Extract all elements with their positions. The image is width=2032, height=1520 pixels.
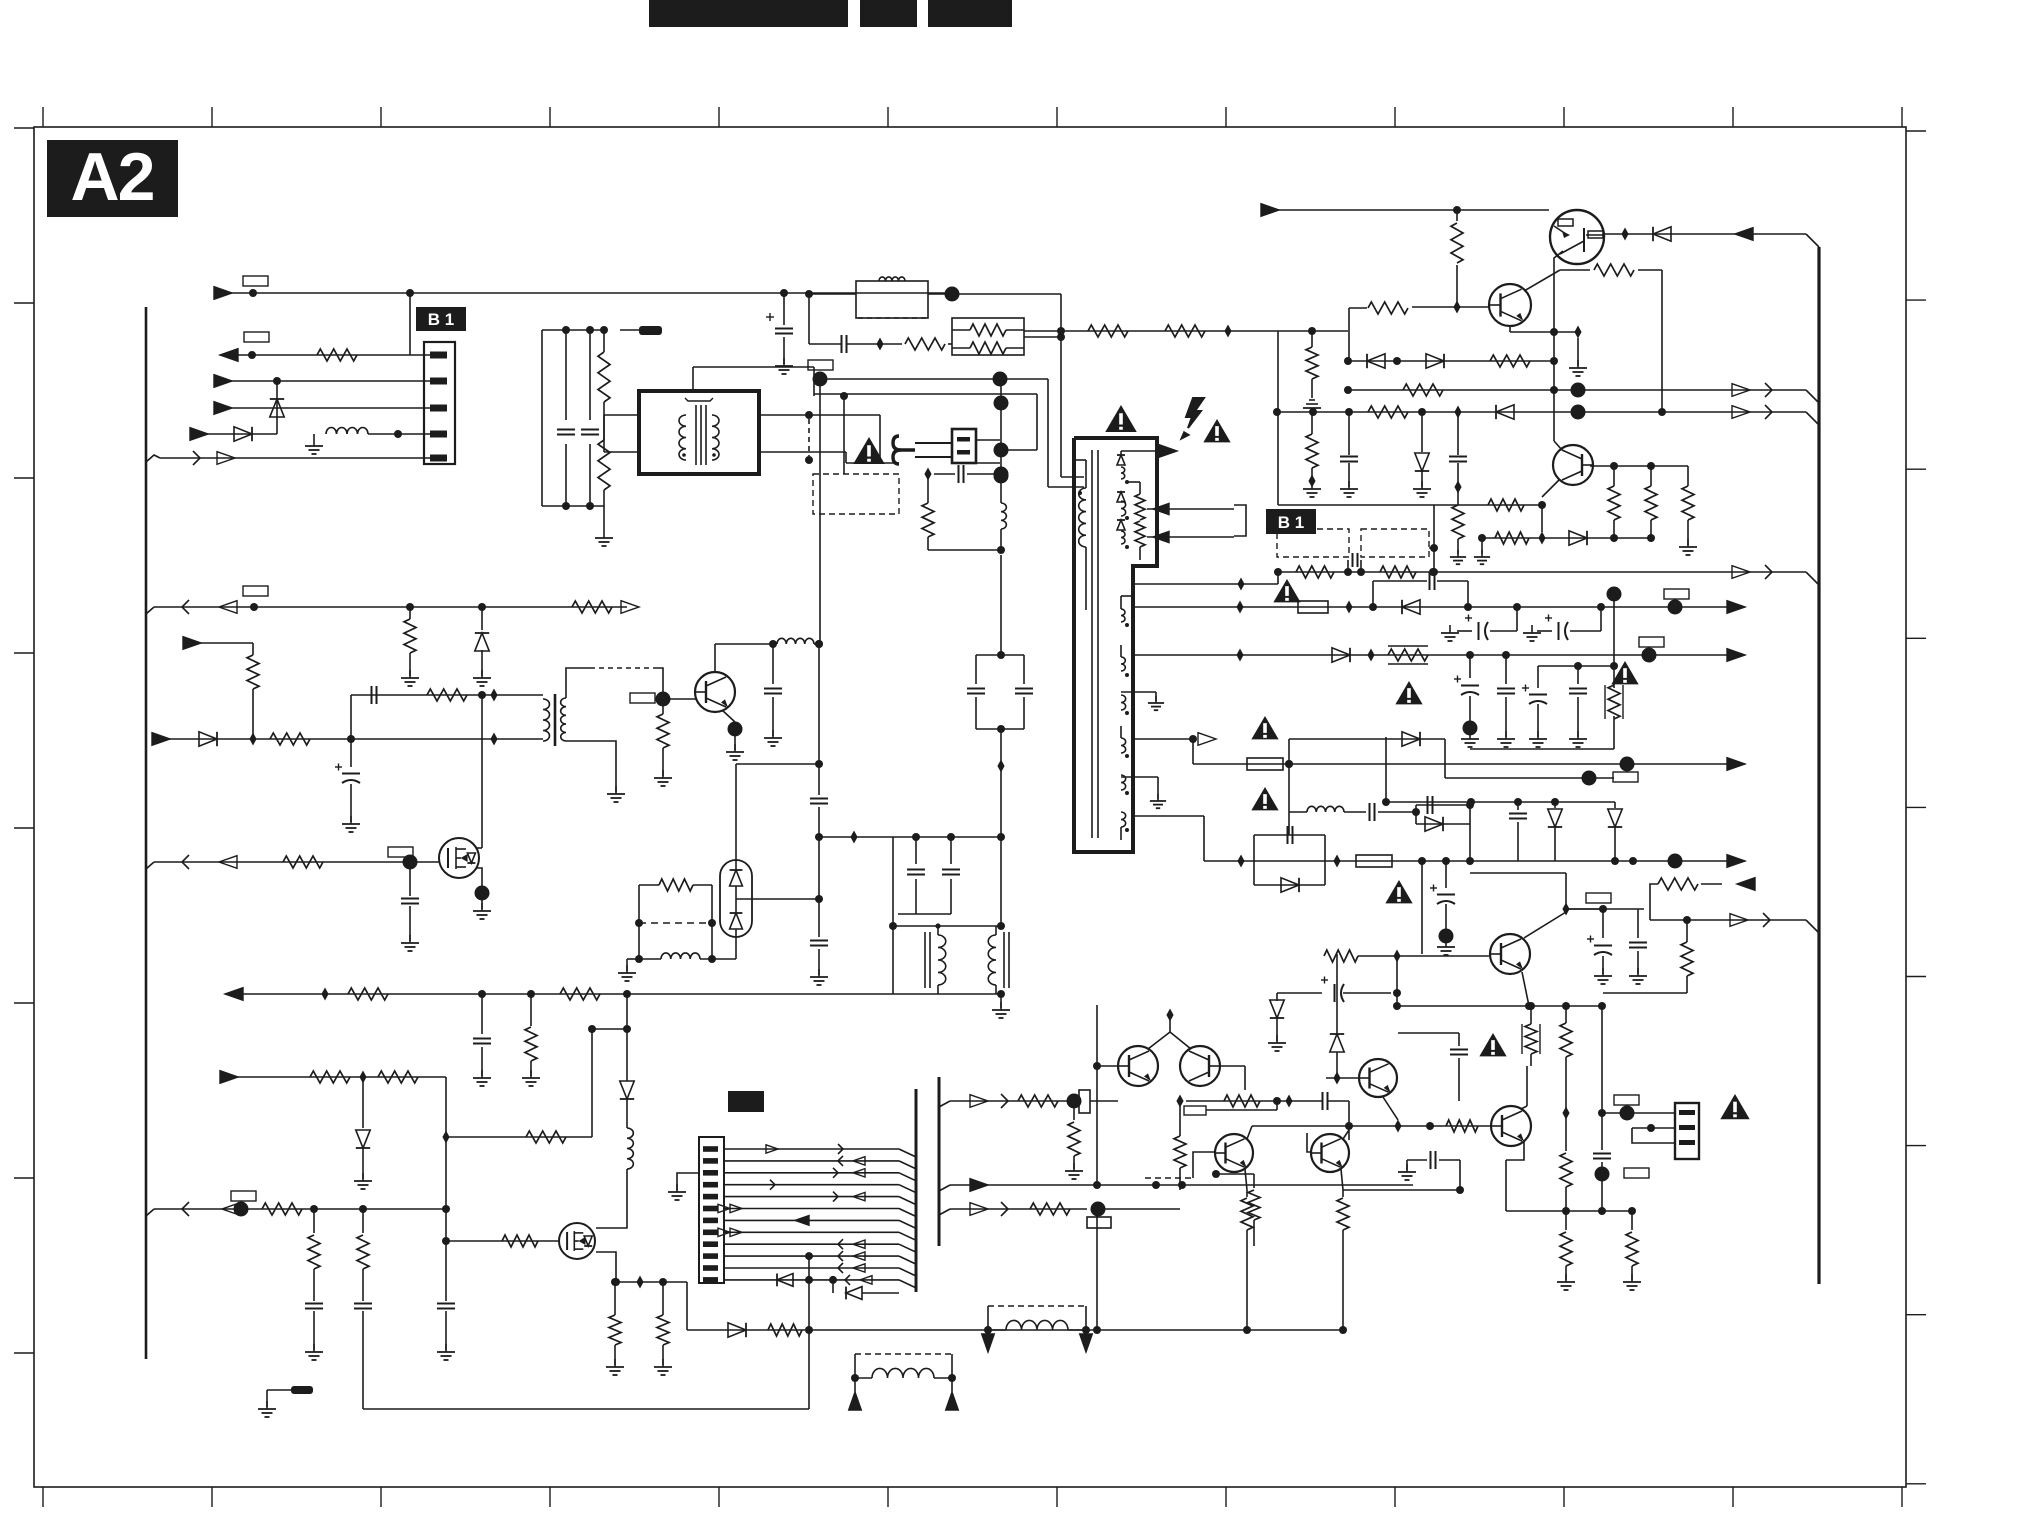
Q3 emitter bbox=[722, 710, 744, 760]
wire y1126 bbox=[1252, 1120, 1491, 1133]
gnd mid bbox=[992, 994, 1010, 1018]
right thick bus bbox=[1817, 247, 1820, 1284]
wire to L box bbox=[805, 290, 856, 298]
Q3 base res bbox=[654, 699, 672, 786]
res v1632 low bbox=[1623, 1211, 1641, 1290]
Q pair left bbox=[1118, 1046, 1158, 1086]
T601 sec w3 bbox=[1121, 531, 1129, 549]
core lines bbox=[696, 405, 706, 465]
chassis terminal bbox=[258, 1386, 313, 1417]
primary winding bbox=[679, 415, 686, 460]
T601 gnd a bbox=[1121, 692, 1164, 710]
warn tri caps bbox=[1395, 681, 1422, 704]
bus 819 from top bbox=[815, 379, 823, 648]
rail2 bbox=[1133, 600, 1745, 615]
res 664 bbox=[654, 1282, 672, 1375]
jumper 1 bbox=[849, 1354, 959, 1410]
T601 sec w4 bbox=[1121, 596, 1133, 627]
lightning bbox=[1181, 398, 1204, 439]
wire pin2 bbox=[214, 375, 430, 388]
base res bbox=[1349, 302, 1408, 363]
svg-text:A2: A2 bbox=[71, 139, 154, 215]
Q10 cap bbox=[1398, 1033, 1468, 1101]
transistor Q3 bbox=[695, 672, 735, 712]
T603 sec top bbox=[566, 668, 663, 699]
Q8 collector bbox=[1510, 325, 1587, 376]
warn tri 2 bbox=[1203, 419, 1230, 442]
terminal pill bbox=[600, 326, 662, 335]
v 1422 down bbox=[1421, 861, 1423, 954]
ladder bar left bbox=[915, 1089, 918, 1292]
main vert 1001 bbox=[997, 555, 1004, 926]
v531 low bbox=[522, 994, 540, 1086]
flyback tap arrow bbox=[1133, 733, 1216, 746]
wire y1282 bbox=[611, 1276, 687, 1331]
diac oval bbox=[720, 860, 752, 959]
warn rail1 bbox=[1273, 579, 1300, 602]
wire B2 y1209 bbox=[146, 1202, 450, 1217]
Q14 emit bbox=[1337, 1169, 1349, 1334]
fus res right bbox=[1479, 1002, 1540, 1066]
label bbox=[244, 332, 269, 342]
top black bar 2 bbox=[860, 0, 917, 27]
warn r5 bbox=[1385, 880, 1412, 903]
out w1 bbox=[939, 1090, 1118, 1113]
res 616 bbox=[606, 1282, 624, 1375]
connector gnd bbox=[668, 1173, 699, 1200]
B1 link arrow2 bbox=[1147, 531, 1234, 542]
pair top join bbox=[1148, 1009, 1191, 1050]
gate wire y862 bbox=[146, 847, 439, 870]
label B1 second bbox=[1266, 509, 1316, 534]
r3 cap d bbox=[1538, 662, 1614, 747]
bigdot label bbox=[1595, 1167, 1650, 1182]
cap bank right bbox=[1566, 905, 1647, 984]
wire cap res y695 bbox=[351, 686, 543, 704]
wire m3 y412 bbox=[1273, 405, 1819, 426]
snub caps bbox=[893, 833, 1005, 914]
hot bus dot bbox=[813, 372, 1008, 387]
CN pin2 wire bbox=[1632, 1124, 1675, 1132]
wire L2 y643 bbox=[183, 637, 259, 739]
r5 top wire bbox=[1382, 737, 1615, 806]
r5 zener g bbox=[1608, 802, 1622, 865]
res arrow out bbox=[1650, 878, 1755, 920]
line transformer box bbox=[639, 391, 759, 474]
T601 sec d1 bbox=[1117, 451, 1125, 465]
out w3 bbox=[939, 1202, 1180, 1229]
Q13 emit bbox=[1241, 1169, 1253, 1334]
connector B1 body bbox=[424, 342, 455, 464]
r5 coil row bbox=[1289, 803, 1420, 821]
connector body bbox=[699, 1137, 724, 1283]
pin12 diode bbox=[777, 1252, 813, 1330]
wire m1 y361 bbox=[1344, 354, 1558, 368]
Q14 coll bbox=[1343, 1130, 1349, 1139]
base network bbox=[1278, 499, 1655, 576]
CN pin3 wire bbox=[1632, 1128, 1675, 1143]
rail4 label bbox=[1613, 772, 1638, 782]
T601 sec d3 bbox=[1117, 520, 1125, 530]
row y1101 bbox=[1176, 1092, 1349, 1140]
res v1566 low bbox=[1557, 1211, 1575, 1290]
Q8 emitter bbox=[1524, 264, 1662, 412]
v482 low bbox=[473, 994, 491, 1086]
warn tri tap bbox=[1251, 716, 1278, 739]
rail4 bbox=[1193, 739, 1745, 772]
fuslink box1 bbox=[1277, 529, 1349, 557]
step wire bbox=[1285, 732, 1614, 835]
wire B1 y1077 bbox=[220, 1071, 446, 1138]
wires from protector bbox=[976, 440, 1000, 463]
zener branch 1422 bbox=[1413, 412, 1431, 497]
T601 tap arrow bbox=[1121, 445, 1177, 458]
trans Q12 bbox=[1491, 1106, 1531, 1146]
Q12u coll bbox=[1470, 873, 1611, 938]
wire pin4 diode bbox=[190, 427, 277, 441]
v314 bbox=[305, 1209, 323, 1360]
wire L1 y607 bbox=[146, 600, 639, 614]
Q10 base net bbox=[1326, 954, 1359, 1085]
top stub bbox=[693, 367, 814, 396]
res gnd 410 bbox=[401, 607, 419, 686]
wire top feed bbox=[214, 287, 952, 300]
hot wire step bbox=[814, 393, 1000, 395]
Q9 transistor bbox=[1553, 445, 1593, 485]
Q12 coll bbox=[1521, 1066, 1527, 1109]
diode res wire y1330 bbox=[687, 1323, 813, 1337]
top black bar 1 bbox=[649, 0, 848, 27]
cap branch 1457 bbox=[1449, 412, 1467, 564]
Q1 source bbox=[473, 868, 491, 919]
relay box RY bbox=[618, 879, 736, 981]
Q10 emit bbox=[1383, 1097, 1398, 1120]
dashed link bbox=[805, 419, 813, 464]
wire y1330 ext bbox=[809, 1216, 1343, 1334]
wire L3 y739 bbox=[152, 732, 543, 746]
wire res box right bbox=[1024, 325, 1348, 338]
B2 label bbox=[231, 1191, 256, 1201]
v446 bbox=[437, 1137, 455, 1360]
T601 sec w2 bbox=[1121, 501, 1129, 520]
pair right out bbox=[1220, 1066, 1245, 1090]
Q12u emit bbox=[1522, 972, 1606, 1010]
res 1687 bbox=[1681, 920, 1693, 993]
Q14 base bbox=[1307, 1133, 1311, 1152]
T601 primary bbox=[1074, 460, 1086, 610]
bottom long wire bbox=[623, 990, 1005, 1033]
L1 label bbox=[243, 586, 268, 596]
conn wire bbox=[1602, 1095, 1675, 1121]
Q8 base wire bbox=[1412, 306, 1490, 308]
warning triangle bbox=[853, 437, 885, 464]
left bus vertical bbox=[145, 307, 148, 1359]
connector pins bbox=[703, 1146, 718, 1283]
inductor box L bbox=[856, 277, 928, 318]
q2 drain up bbox=[592, 1029, 634, 1228]
Q13 coll bbox=[1247, 1126, 1252, 1139]
big dots chain bbox=[994, 379, 1038, 484]
cap C2 bbox=[581, 330, 599, 506]
black label bbox=[728, 1091, 764, 1112]
trans Q14 bbox=[1311, 1134, 1349, 1172]
wire y764 bbox=[736, 764, 819, 860]
T601 sec w8 bbox=[1121, 775, 1129, 795]
zener 363 bbox=[354, 1077, 372, 1189]
digital transistor Q7 bbox=[1550, 210, 1604, 264]
res v pair bbox=[1590, 462, 1697, 555]
connector label B1 bbox=[416, 307, 466, 331]
res chain 1180 bbox=[1174, 1101, 1186, 1190]
wire y1137 bbox=[442, 1025, 596, 1144]
wire pin1 bbox=[220, 349, 430, 362]
xfmr out top bbox=[759, 411, 880, 460]
rail2 cap loop bbox=[1373, 572, 1468, 607]
branch down bbox=[809, 294, 841, 344]
vert 1602 bbox=[1593, 1006, 1611, 1211]
bias res 1254 bbox=[1212, 1170, 1260, 1246]
T601 sec w7 bbox=[1121, 726, 1129, 758]
Q3 collector bbox=[715, 640, 777, 672]
r3 ecap c bbox=[1522, 666, 1547, 747]
mid gnd cap bbox=[1398, 1151, 1464, 1194]
Q7 emitter vertical bbox=[1554, 251, 1563, 441]
corner down to B1 lead bbox=[1277, 331, 1279, 505]
res gnd out1 bbox=[1065, 1101, 1083, 1179]
drain v 482 bbox=[481, 695, 483, 839]
wire y1190 ext bbox=[1343, 1189, 1460, 1191]
diac tap bbox=[736, 895, 823, 903]
trans Q13 bbox=[1215, 1134, 1253, 1172]
mosfet Q2 bbox=[559, 1223, 595, 1259]
r5 diode f bbox=[1548, 802, 1562, 861]
rail5 bbox=[1204, 854, 1745, 869]
T601 gnd b bbox=[1121, 777, 1166, 808]
rail1 bbox=[1133, 565, 1819, 591]
relay dashed box bbox=[813, 474, 899, 514]
T601 sec w6 bbox=[1121, 695, 1129, 715]
wire y994 bbox=[225, 988, 627, 1001]
ecap 351 bbox=[335, 695, 360, 832]
xfmr out bottom bbox=[759, 452, 899, 463]
wire y837 bbox=[819, 831, 893, 927]
bracket bbox=[1234, 505, 1246, 536]
label bbox=[243, 276, 268, 286]
wire y993 bbox=[1603, 992, 1687, 994]
r5 ecap bbox=[1430, 861, 1455, 955]
T601 sec w9 bbox=[1121, 812, 1129, 840]
rail5 rc box bbox=[1254, 826, 1325, 892]
bleeder res bbox=[1127, 482, 1145, 560]
warn tri rail5tap bbox=[1251, 787, 1278, 810]
resistor R upper bbox=[598, 330, 610, 440]
wire y1211 bbox=[1506, 1207, 1636, 1215]
ecap2 bbox=[1523, 607, 1601, 641]
rail3 label bbox=[1639, 637, 1664, 647]
T601 core bbox=[1092, 450, 1098, 838]
r3 ecap a bbox=[1454, 655, 1479, 747]
top cap + bbox=[766, 289, 793, 374]
v branch 1348 bbox=[1340, 412, 1358, 497]
zener 482 bbox=[473, 607, 491, 686]
bus 819 upper bbox=[810, 644, 828, 985]
wires to transformer bbox=[604, 415, 639, 452]
coil to pin4 bbox=[305, 427, 430, 454]
wire pin3 bbox=[214, 402, 430, 415]
jumper 2 bbox=[982, 1306, 1093, 1352]
Q9 emitter bbox=[1538, 479, 1560, 545]
out w2 long bbox=[939, 1179, 1413, 1192]
bottom wire y1409 bbox=[363, 1330, 809, 1409]
T601 sec w5 bbox=[1121, 645, 1129, 677]
r5 diode pair bbox=[1416, 796, 1474, 861]
T603 sec bot bbox=[566, 741, 625, 802]
warn tri T601 bbox=[1105, 405, 1137, 432]
trans Q10 bbox=[1359, 1059, 1397, 1097]
rail5 tap bbox=[1133, 816, 1204, 861]
gate cap bbox=[401, 862, 419, 951]
res v1566 a bbox=[1560, 1002, 1572, 1211]
res pair box bbox=[952, 318, 1024, 355]
connector CN bbox=[1675, 1103, 1699, 1159]
cap pair box bbox=[967, 651, 1033, 733]
wire L to dot bbox=[928, 287, 1065, 478]
spark gap bbox=[893, 436, 952, 464]
protector box bbox=[952, 429, 976, 463]
top black bar 3 bbox=[928, 0, 1012, 27]
warn rail3 bbox=[1611, 661, 1638, 684]
branch diamond res bbox=[847, 338, 952, 351]
choke T602 bbox=[889, 922, 1009, 994]
res under top bbox=[1451, 210, 1463, 314]
sheet label A2 bbox=[47, 140, 178, 217]
snubber cap bbox=[1348, 553, 1361, 572]
relay feed wire bbox=[840, 392, 848, 474]
cap gnd 773 bbox=[764, 644, 782, 746]
T601 sec d2 bbox=[1117, 492, 1125, 502]
rail2 label bbox=[1664, 589, 1689, 599]
transistor Q8 bbox=[1489, 284, 1531, 326]
pair left base bbox=[1093, 1005, 1118, 1189]
warn CN bbox=[1720, 1094, 1749, 1119]
r5 cap e bbox=[1509, 802, 1527, 861]
Q13 base bbox=[1145, 1152, 1215, 1178]
Q7 out wire bbox=[1604, 227, 1819, 247]
fusres v bbox=[1470, 587, 1623, 750]
ecap1 bbox=[1441, 607, 1517, 641]
cap network box bbox=[542, 326, 604, 510]
label bbox=[808, 360, 833, 370]
Q pair right bbox=[1180, 1046, 1220, 1086]
Q3 base feed bbox=[630, 692, 697, 707]
resistor R lower bbox=[598, 440, 610, 506]
fuslink box2 bbox=[1361, 529, 1429, 557]
res coil pair bbox=[922, 465, 1009, 554]
rail3 bbox=[1133, 646, 1745, 664]
cap C1 bbox=[557, 330, 575, 506]
wire pin5 bbox=[146, 451, 430, 465]
zener D bbox=[270, 381, 284, 434]
wire junction to connector bbox=[406, 289, 414, 355]
gnd stub bbox=[595, 506, 613, 546]
r3 cap b bbox=[1497, 655, 1515, 747]
connector wires bbox=[718, 1144, 916, 1288]
Q12u base bbox=[1268, 950, 1533, 1052]
Q9 collector bbox=[1554, 441, 1562, 450]
secondary winding bbox=[712, 415, 719, 460]
q2 source bbox=[596, 1252, 620, 1286]
T601 sec w1 bbox=[1121, 467, 1129, 484]
shield bracket bbox=[685, 398, 713, 401]
collector choke bbox=[777, 638, 823, 648]
T601 body bbox=[1074, 438, 1157, 852]
B1 link arrow1 bbox=[1147, 503, 1234, 514]
v branch 1312 bbox=[1303, 327, 1321, 497]
cap bbox=[842, 335, 847, 353]
gate wire q2 bbox=[446, 1235, 558, 1247]
driver transformer T603 bbox=[543, 694, 566, 746]
mosfet Q1 bbox=[439, 838, 479, 878]
Q12u bbox=[1490, 934, 1530, 974]
lower diode bbox=[829, 1276, 899, 1300]
svg-text:B 1: B 1 bbox=[428, 310, 454, 329]
Q1 drain bbox=[477, 839, 482, 848]
wire m2 y390 bbox=[1344, 383, 1819, 404]
Q12 emit bbox=[1506, 1141, 1524, 1211]
v363b bbox=[354, 1209, 372, 1409]
wire y920 bbox=[1650, 913, 1819, 933]
aux vert lines bbox=[1000, 379, 1084, 487]
top wire arrow bbox=[1261, 204, 1549, 217]
ladder bar right bbox=[938, 1077, 941, 1246]
